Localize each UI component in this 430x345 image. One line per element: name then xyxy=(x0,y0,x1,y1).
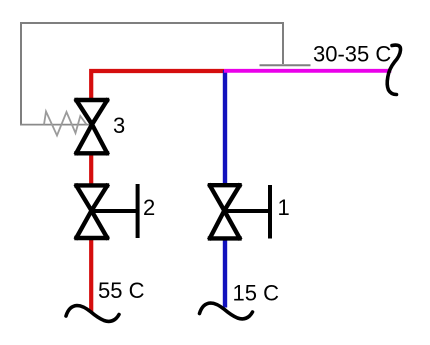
svg-text:1: 1 xyxy=(278,195,290,220)
wire red between valve 3 and valve 2 xyxy=(89,155,93,184)
svg-text:15 C: 15 C xyxy=(233,281,280,306)
svg-text:55 C: 55 C xyxy=(98,278,145,303)
valve 2 handle xyxy=(93,184,138,238)
wire blue cold riser xyxy=(223,70,227,184)
svg-text:2: 2 xyxy=(143,195,155,220)
wire gray horizontal into actuator xyxy=(20,124,92,126)
node break squiggle at mixed outlet xyxy=(387,45,400,94)
wire gray control loop from sensor to valve 3 actuator xyxy=(21,23,283,125)
node break squiggle at 15 C supply xyxy=(200,303,253,319)
wire hot supply red riser top xyxy=(91,71,224,98)
spring actuator zigzag of valve 3 xyxy=(44,112,87,136)
valve 1 body xyxy=(210,185,240,238)
svg-text:3: 3 xyxy=(113,113,125,138)
valve 2 body xyxy=(77,185,108,238)
valve 1 handle xyxy=(226,185,270,239)
node sensor bulb on mixed outlet xyxy=(260,64,311,66)
wire red below valve 2 (55 C supply) xyxy=(89,240,93,312)
valve 3 thermostatic mixing valve body xyxy=(77,100,108,153)
wire blue below valve 1 (15 C supply) xyxy=(223,241,227,308)
node break squiggle at 55 C supply xyxy=(66,306,119,322)
svg-text:30-35 C: 30-35 C xyxy=(313,42,391,67)
wire magenta mixed outlet 30-35 C xyxy=(224,69,391,73)
